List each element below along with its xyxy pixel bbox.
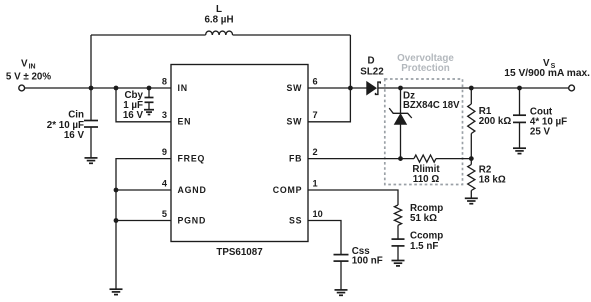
svg-text:V: V [21, 58, 28, 69]
svg-text:6: 6 [313, 76, 318, 86]
pin 3 (EN) [162, 110, 191, 126]
svg-text:SW: SW [287, 117, 303, 127]
svg-text:EN: EN [178, 117, 192, 127]
svg-text:7: 7 [313, 110, 318, 120]
svg-text:4: 4 [162, 178, 168, 188]
diode D SL22 [360, 56, 384, 95]
wire: FB line [308, 158, 471, 160]
svg-text:16 V: 16 V [123, 110, 144, 121]
pin 1 (COMP) [273, 178, 318, 194]
svg-text:8: 8 [162, 76, 167, 86]
ground (R2) [465, 198, 478, 203]
junction: SW node [348, 86, 353, 91]
junction: FB divider node [469, 156, 474, 161]
svg-text:FB: FB [289, 153, 302, 163]
wire: FREQ/AGND/PGND ground bus [116, 159, 171, 290]
pin 2 (FB) [289, 147, 318, 163]
ground (Cout) [513, 148, 526, 153]
junction: Cout tap [517, 86, 522, 91]
wire: top rail (right of L) [233, 35, 351, 88]
node VIN label (5 V ± 20%) [6, 58, 51, 82]
svg-text:2: 2 [313, 147, 318, 157]
junction: Dz cathode node [398, 86, 403, 91]
capacitor Cin 2* 10 µF 16 V [47, 88, 98, 158]
capacitor Css 100 nF [334, 246, 383, 290]
ground (Css) [335, 290, 348, 295]
pin 9 (FREQ) [162, 147, 205, 163]
svg-text:18 kΩ: 18 kΩ [479, 175, 506, 186]
svg-text:COMP: COMP [273, 185, 303, 195]
junction: Dz anode / Rlimit node [398, 156, 403, 161]
svg-text:V: V [543, 58, 550, 69]
svg-text:16 V: 16 V [64, 130, 85, 141]
junction: R1 top node [469, 86, 474, 91]
resistor Rlimit 110 Ω [412, 155, 440, 185]
pin 4 (AGND) [162, 178, 207, 194]
junction: AGND tap [114, 188, 119, 193]
ground (Cby) [144, 110, 154, 115]
pin 10 (SS) [289, 209, 323, 225]
wire: AGND stub [116, 189, 171, 191]
svg-text:110 Ω: 110 Ω [413, 174, 440, 185]
node VS label (15 V/900 mA max.) [504, 58, 590, 79]
svg-text:SL22: SL22 [360, 67, 384, 78]
wire: COMP to Rcomp [308, 190, 398, 205]
resistor R1 200 kΩ [468, 88, 512, 159]
wire: SW pin 7 riser [308, 88, 350, 122]
svg-text:AGND: AGND [178, 185, 207, 195]
svg-text:10: 10 [313, 209, 323, 219]
zener diode Dz BZX84C 18V [389, 88, 460, 159]
svg-text:D: D [367, 56, 374, 67]
junction: EN tap [114, 86, 119, 91]
terminal VIN [19, 85, 25, 91]
pin 5 (PGND) [162, 209, 206, 225]
svg-text:IN: IN [29, 64, 36, 71]
ground (Cin) [85, 158, 98, 163]
junction: inductor/Cin tap [89, 86, 94, 91]
wire: VIN rail to IN pin [25, 87, 171, 89]
svg-text:200 kΩ: 200 kΩ [479, 116, 512, 127]
wire: PGND stub [116, 220, 171, 222]
terminal VS [569, 85, 575, 91]
svg-text:SS: SS [289, 215, 302, 225]
wire: top rail (left of L) [91, 34, 206, 36]
svg-text:5: 5 [162, 209, 167, 219]
svg-text:9: 9 [162, 147, 167, 157]
junction: Cby tap [147, 86, 152, 91]
svg-text:5 V ± 20%: 5 V ± 20% [6, 72, 51, 83]
ground (signal/power ground) [110, 289, 123, 294]
resistor R2 18 kΩ [468, 159, 506, 199]
capacitor Ccomp 1.5 nF [392, 231, 444, 261]
resistor Rcomp 51 kΩ [394, 203, 443, 225]
svg-text:51 kΩ: 51 kΩ [410, 213, 437, 224]
wire: EN branch [116, 88, 171, 122]
svg-text:Protection: Protection [401, 63, 449, 74]
svg-text:25 V: 25 V [530, 127, 551, 138]
wire: SW pin 6 to diode [308, 87, 367, 89]
svg-text:TPS61087: TPS61087 [216, 247, 263, 258]
svg-text:6.8 µH: 6.8 µH [204, 15, 233, 26]
svg-text:FREQ: FREQ [178, 153, 206, 163]
ground (Ccomp) [392, 261, 405, 266]
svg-text:PGND: PGND [178, 215, 207, 225]
svg-text:1: 1 [313, 178, 318, 188]
svg-text:15 V/900 mA max.: 15 V/900 mA max. [504, 68, 590, 79]
svg-text:L: L [216, 4, 222, 15]
inductor L 6.8 µH [204, 4, 233, 35]
junction: PGND tap [114, 218, 119, 223]
pin 7 (SW) [287, 110, 318, 126]
wire: SS to Css [308, 221, 341, 255]
pin 8 (IN) [162, 76, 188, 92]
svg-text:BZX84C 18V: BZX84C 18V [403, 100, 460, 111]
wire: Rcomp to Ccomp [397, 225, 399, 239]
svg-text:IN: IN [178, 83, 188, 93]
pin 6 (SW) [287, 76, 318, 92]
svg-text:100 nF: 100 nF [352, 256, 383, 267]
capacitor Cout 4* 10 µF 25 V [513, 88, 567, 148]
svg-text:SW: SW [287, 83, 303, 93]
wire: output rail (diode to VS) [378, 87, 569, 89]
op-amp U1 TPS61087 body [171, 65, 308, 258]
overvoltage protection box [385, 53, 463, 185]
svg-text:1.5 nF: 1.5 nF [410, 241, 438, 252]
wire: input rail riser [90, 35, 92, 88]
svg-text:3: 3 [162, 110, 167, 120]
capacitor Cby 1 µF 16 V [123, 88, 154, 121]
